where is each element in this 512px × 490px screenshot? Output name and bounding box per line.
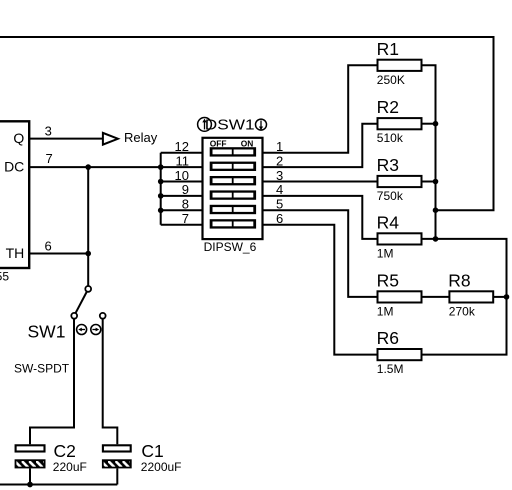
svg-text:9: 9 — [182, 182, 189, 197]
svg-text:7: 7 — [46, 151, 53, 166]
svg-text:12: 12 — [175, 139, 189, 154]
svg-text:ON: ON — [241, 138, 254, 148]
svg-text:R3: R3 — [377, 155, 399, 175]
svg-text:OFF: OFF — [210, 138, 227, 148]
svg-text:10: 10 — [175, 168, 189, 183]
svg-text:5: 5 — [276, 197, 283, 212]
svg-text:6: 6 — [45, 239, 52, 254]
svg-text:6: 6 — [276, 211, 283, 226]
svg-text:7: 7 — [182, 211, 189, 226]
svg-text:220uF: 220uF — [53, 460, 87, 474]
svg-text:1.5M: 1.5M — [377, 362, 404, 376]
svg-text:SW-SPDT: SW-SPDT — [14, 362, 70, 376]
svg-text:750k: 750k — [377, 189, 404, 203]
svg-text:510k: 510k — [377, 131, 404, 145]
svg-text:SW1: SW1 — [28, 322, 66, 342]
svg-text:Relay: Relay — [124, 130, 158, 145]
svg-text:Q: Q — [13, 130, 24, 146]
svg-text:1M: 1M — [377, 246, 394, 260]
svg-text:3: 3 — [276, 168, 283, 183]
svg-text:11: 11 — [176, 153, 190, 168]
svg-text:1: 1 — [276, 139, 283, 154]
svg-text:2: 2 — [276, 153, 283, 168]
svg-text:R4: R4 — [377, 212, 400, 232]
svg-text:8: 8 — [182, 197, 189, 212]
svg-text:TH: TH — [6, 245, 25, 261]
svg-text:C2: C2 — [54, 441, 76, 461]
svg-text:3: 3 — [45, 124, 52, 139]
svg-text:DSW1: DSW1 — [205, 118, 255, 134]
svg-text:DC: DC — [4, 158, 24, 174]
svg-text:R6: R6 — [377, 328, 399, 348]
svg-text:1M: 1M — [377, 304, 394, 318]
svg-text:4: 4 — [276, 182, 283, 197]
svg-text:R2: R2 — [377, 97, 399, 117]
svg-text:270k: 270k — [449, 304, 476, 318]
svg-text:DIPSW_6: DIPSW_6 — [204, 240, 257, 254]
svg-text:2200uF: 2200uF — [141, 460, 182, 474]
svg-text:R1: R1 — [377, 39, 399, 59]
svg-text:R5: R5 — [377, 270, 399, 290]
svg-text:C1: C1 — [141, 441, 163, 461]
svg-text:555: 555 — [0, 270, 9, 284]
svg-text:250K: 250K — [377, 73, 405, 87]
svg-text:R8: R8 — [448, 270, 470, 290]
